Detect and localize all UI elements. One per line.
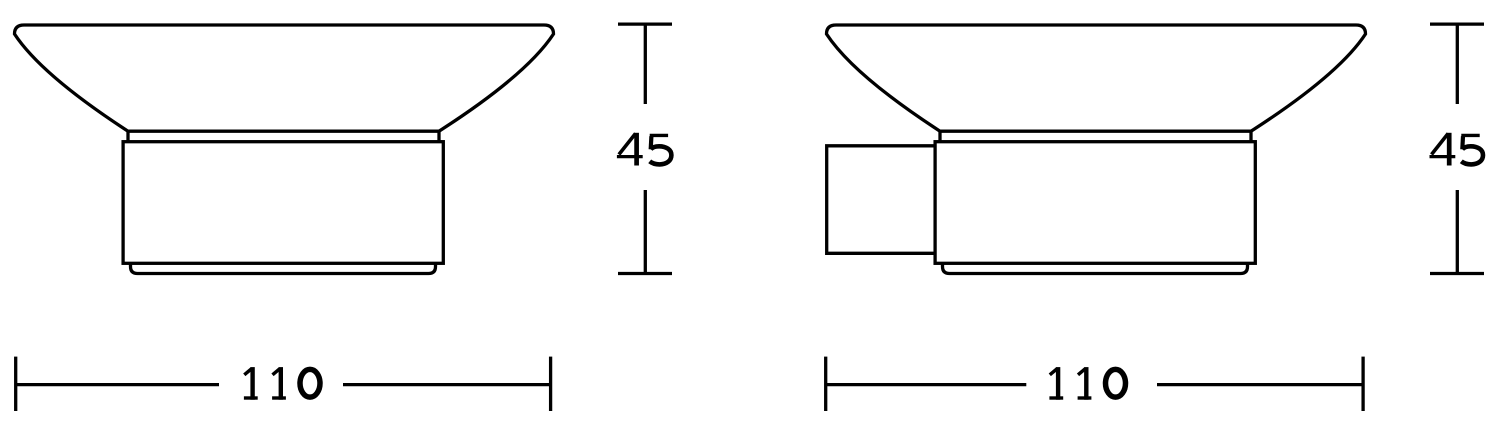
holder base rectangle: [935, 142, 1255, 264]
label 45: [1430, 133, 1456, 166]
height dimension 45: lower extension line: [1456, 190, 1459, 274]
width dimension 110: right line segment: [343, 383, 551, 386]
label 110: [1049, 367, 1063, 400]
neck left edge: [126, 131, 129, 142]
height dimension 45: top tick: [618, 22, 672, 25]
width dimension 110: left line segment: [16, 383, 219, 386]
bowl outline (dish cross-section): [15, 25, 554, 131]
wall-mount bracket: [827, 146, 935, 254]
holder base rectangle: [123, 142, 443, 264]
height dimension 45: upper extension line: [644, 24, 647, 104]
width dimension 110: right tick: [549, 357, 552, 411]
height dimension 45: top tick: [1430, 22, 1484, 25]
height dimension 45: lower extension line: [644, 190, 647, 274]
bottom plate with rounded corners: [131, 263, 436, 273]
height dimension 45: upper extension line: [1456, 24, 1459, 104]
bottom plate with rounded corners: [943, 263, 1248, 273]
label 45: [617, 133, 643, 166]
neck left edge: [938, 131, 941, 142]
width dimension 110: right tick: [1361, 357, 1364, 411]
height dimension 45: bottom tick: [618, 272, 672, 275]
width dimension 110: left tick: [824, 357, 827, 411]
bowl outline (dish cross-section): [827, 25, 1366, 131]
neck right edge: [437, 131, 440, 142]
width dimension 110: right line segment: [1157, 383, 1363, 386]
width dimension 110: left line segment: [826, 383, 1027, 386]
neck right edge: [1249, 131, 1252, 142]
height dimension 45: bottom tick: [1430, 272, 1484, 275]
label 110: [244, 367, 258, 400]
width dimension 110: left tick: [14, 357, 17, 411]
